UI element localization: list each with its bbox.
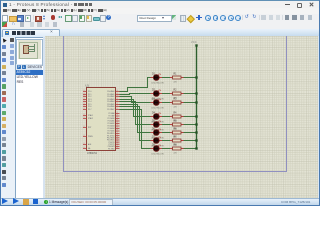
wire D7-R7 (162, 140, 170, 142)
svg-text:220: 220 (174, 106, 177, 108)
svg-text:P1.2: P1.2 (88, 96, 92, 98)
svg-text:P0.0/AD0: P0.0/AD0 (107, 90, 114, 93)
wire D4-R4 (162, 116, 170, 118)
wire R8 to rail (184, 148, 197, 150)
resistor R3 (170, 99, 184, 109)
wire R7 to rail (184, 140, 197, 142)
svg-text:P1.4: P1.4 (88, 101, 92, 103)
resistor R8 (170, 145, 184, 155)
window borders (0, 0, 1, 206)
wire net to D3 (120, 97, 152, 103)
menu bar (0, 8, 320, 14)
svg-text:LED-YELLOW: LED-YELLOW (152, 154, 164, 156)
svg-text:LED-YELLOW: LED-YELLOW (152, 83, 164, 85)
svg-text:XTAL2: XTAL2 (88, 117, 93, 120)
resistor R4 (170, 113, 184, 123)
wire R3 to rail (184, 102, 197, 104)
device list (16, 70, 44, 75)
DEVICES header (16, 64, 43, 70)
svg-text:P3.7/RD: P3.7/RD (108, 148, 115, 150)
LED D4 (151, 112, 164, 123)
junction (195, 123, 197, 125)
LED D8 (151, 144, 164, 155)
resistor R5 (170, 121, 184, 131)
left toolbar strip (0, 37, 10, 199)
resistor R6 (170, 129, 184, 139)
wire net to D5 (120, 102, 152, 125)
wire D2-R2 (162, 93, 170, 95)
sheet border (64, 36, 287, 172)
tab bar (0, 29, 320, 38)
second icon column (9, 37, 16, 199)
LED D6 (151, 128, 164, 139)
junction (195, 147, 197, 149)
wire D5-R5 (162, 124, 170, 126)
canvas (45, 36, 318, 198)
wire D3-R3 (162, 102, 170, 104)
svg-text:P1.6: P1.6 (88, 106, 92, 108)
wire net to D1 (120, 78, 152, 92)
svg-text:U1: U1 (86, 84, 90, 88)
LED D2 (151, 89, 164, 100)
wire R5 to rail (184, 124, 197, 126)
svg-text:LED-YELLOW: LED-YELLOW (152, 108, 164, 110)
wire D6-R6 (162, 132, 170, 134)
wire D8-R8 (162, 148, 170, 150)
LED D3 (151, 98, 164, 109)
svg-text:PSEN: PSEN (88, 136, 93, 138)
LED D5 (151, 120, 164, 131)
svg-text:P0.6/AD6: P0.6/AD6 (107, 105, 114, 108)
overview window (16, 39, 43, 66)
wire net to D6 (120, 105, 152, 133)
sim buttons (2, 198, 8, 204)
svg-text:P1.0: P1.0 (88, 91, 92, 93)
junction (195, 101, 197, 103)
resistor R1 (170, 74, 184, 84)
svg-text:P1.7: P1.7 (88, 109, 92, 111)
status bar (0, 198, 320, 207)
toolbar row 1 (0, 14, 320, 23)
svg-text:AT89C52: AT89C52 (87, 152, 98, 155)
combobox (137, 15, 172, 23)
svg-text:P0.2/AD2: P0.2/AD2 (107, 95, 114, 98)
wire R1 to rail (184, 77, 197, 79)
power terminal VCC (195, 44, 197, 46)
svg-text:RST: RST (88, 127, 91, 129)
wire net to D4 (120, 100, 152, 117)
svg-text:220: 220 (174, 81, 177, 83)
resistor R2 (170, 90, 184, 100)
LED D1 (151, 73, 164, 84)
wire R6 to rail (184, 132, 197, 134)
svg-text:220: 220 (174, 152, 177, 154)
junction (195, 115, 197, 117)
wire R4 to rail (184, 116, 197, 118)
toolbar row 2 (0, 21, 320, 30)
wire D1-R1 (162, 77, 170, 79)
wire net to D2 (120, 94, 152, 95)
svg-text:P0.7/AD7: P0.7/AD7 (107, 108, 114, 111)
wire net to D7 (120, 107, 152, 141)
power rail vertical wire (196, 46, 198, 149)
svg-text:P0.4/AD4: P0.4/AD4 (107, 100, 114, 103)
junction (195, 92, 197, 94)
resistor R7 (170, 137, 184, 147)
wire net to D8 (120, 110, 152, 149)
microcontroller U1 AT89C52 (83, 84, 120, 156)
junction (195, 139, 197, 141)
title bar (0, 0, 320, 9)
left panel (15, 37, 45, 200)
junction (195, 76, 197, 78)
svg-text:XTAL1: XTAL1 (88, 114, 93, 117)
svg-text:VCC: VCC (191, 41, 197, 44)
wire R2 to rail (184, 93, 197, 95)
LED D7 (151, 136, 164, 147)
junction (195, 131, 197, 133)
